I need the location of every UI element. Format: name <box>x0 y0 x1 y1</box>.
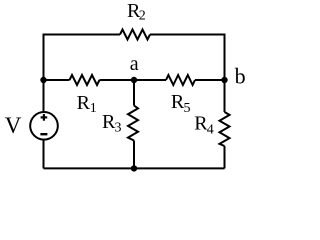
resistor R5 <box>166 75 195 85</box>
wire source bottom to bottom rail <box>43 140 45 169</box>
wire R1 to node a <box>100 79 135 81</box>
label R3 <box>102 111 122 136</box>
node left junction dot <box>40 77 46 83</box>
resistor R3 <box>128 106 138 141</box>
svg-text:b: b <box>235 63 246 88</box>
voltage source minus sign <box>40 133 47 135</box>
voltage source V circle <box>30 112 58 140</box>
wire bottom rail <box>44 167 225 169</box>
wire left node to source top <box>43 80 45 112</box>
voltage source plus sign <box>41 114 48 121</box>
wire R3 to bottom rail <box>133 141 135 169</box>
label R5 <box>171 91 191 116</box>
wire mid rail left lead <box>44 79 70 81</box>
label R1 <box>77 92 97 116</box>
label R4 <box>194 113 214 138</box>
wire R4 to bottom rail <box>224 146 226 168</box>
wire top rail right segment <box>150 35 225 81</box>
svg-text:4: 4 <box>207 123 214 138</box>
wire top rail left segment <box>44 35 121 81</box>
node b junction dot <box>221 77 227 83</box>
node a junction dot <box>131 77 137 83</box>
resistor R4 <box>220 112 230 146</box>
svg-text:3: 3 <box>115 121 122 136</box>
wire R5 to node b <box>195 79 225 81</box>
wire node a down to R3 <box>133 80 135 106</box>
resistor R2 <box>120 30 150 40</box>
svg-text:a: a <box>130 53 139 75</box>
wire node a to R5 <box>134 79 166 81</box>
label R2 <box>127 0 146 24</box>
svg-text:2: 2 <box>139 9 146 24</box>
resistor R1 <box>70 75 100 85</box>
svg-text:V: V <box>5 113 22 138</box>
svg-text:1: 1 <box>90 101 97 116</box>
wire node b down to R4 <box>224 80 226 112</box>
svg-text:5: 5 <box>184 101 191 116</box>
svg-text:R: R <box>77 92 91 114</box>
node bottom junction dot <box>131 165 137 171</box>
